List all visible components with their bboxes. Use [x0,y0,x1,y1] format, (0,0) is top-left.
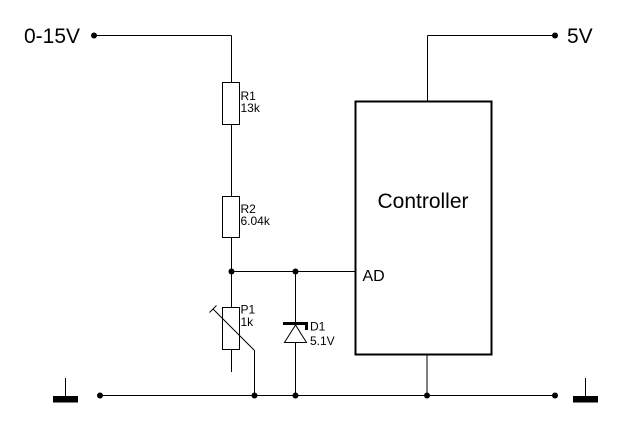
svg-text:5V: 5V [567,25,593,48]
wire 0-15V horizontal [94,35,232,37]
wire D1 to ground rail [295,343,297,396]
wire 5V horizontal [428,35,556,37]
node dot rail left [97,393,103,399]
ground left [53,378,78,403]
svg-text:6.04k: 6.04k [241,214,271,228]
node dot 0-15V [91,33,97,39]
svg-text:13k: 13k [241,101,261,115]
wire 0-15V down to R1 [231,36,233,83]
wire node A to AD pin [232,271,356,273]
wire controller bottom to rail [426,356,428,396]
wire P1 wiper to ground rail [254,351,256,396]
wire R1 to R2 [231,125,233,197]
controller U1 box [356,102,492,355]
wire R2 to node A [231,238,233,272]
zener diode D1 [283,324,308,343]
resistor R2 [223,197,240,238]
svg-text:5.1V: 5.1V [310,334,335,348]
svg-text:1k: 1k [241,315,255,329]
resistor R1 [223,83,240,125]
node dot rail right [552,393,558,399]
junction dot D1 bottom [293,393,299,399]
svg-text:D1: D1 [310,320,326,334]
potentiometer P1 [210,306,255,373]
junction dot wiper [252,393,258,399]
svg-text:0-15V: 0-15V [24,25,80,48]
svg-text:Controller: Controller [377,190,468,213]
wire 5V down to controller [427,36,429,101]
wire node A down to P1 [231,272,233,308]
wire down to D1 [295,272,297,324]
node dot 5V [552,33,558,39]
junction dot D1 top [293,269,299,275]
svg-text:AD: AD [363,268,385,285]
node A junction dot [229,269,235,275]
ground right [573,378,598,403]
junction dot controller bottom [424,393,430,399]
ground rail wire [100,395,555,397]
